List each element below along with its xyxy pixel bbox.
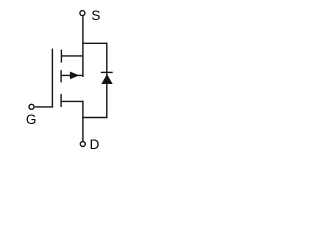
- svg-text:S: S: [91, 8, 100, 23]
- svg-text:G: G: [26, 112, 37, 127]
- svg-text:D: D: [90, 137, 100, 152]
